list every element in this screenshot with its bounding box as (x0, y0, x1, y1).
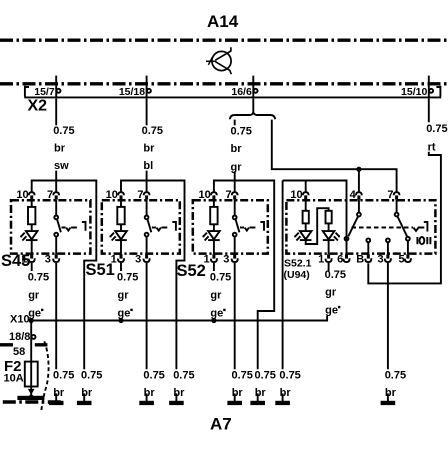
svg-text:0.75: 0.75 (210, 272, 231, 284)
svg-text:0.75: 0.75 (53, 370, 74, 382)
wire from 15/7 upper segment (55, 99, 57, 126)
arrowhead at fuse output (28, 389, 35, 395)
resistor 2 S52.1 (326, 211, 332, 224)
terminal 16/6 hook (254, 89, 258, 93)
ground S52 housing (257, 393, 259, 401)
svg-text:br: br (232, 387, 244, 399)
wire contact to pin 3 (234, 237, 236, 255)
switch 2 upper contact (395, 213, 399, 217)
svg-text:3: 3 (135, 253, 141, 265)
wire 16/6 left branch stub (234, 120, 236, 126)
junction dot at S52.1 pin 4 branch (356, 167, 361, 172)
switch lower contact (233, 233, 237, 237)
svg-text:58: 58 (13, 346, 25, 358)
wire resistor to LED (120, 224, 122, 231)
wire contact to pin 3 (146, 237, 148, 255)
S52.1 pin 4 (356, 192, 362, 195)
wire LED 2 to pin 1 (328, 241, 330, 254)
S52.1 pin B (367, 254, 370, 258)
mechanical linkage S45 (62, 228, 77, 231)
X2 rail left riser (25, 86, 29, 97)
wire contact to pin B (367, 242, 369, 254)
S45 pin 1 (30, 254, 33, 258)
S52.1 housing top wire and right edge to pin 6 (283, 181, 347, 255)
wire S52 pin 3 to ground (234, 263, 236, 369)
wire pin 7 to contact (55, 200, 57, 216)
wire 16/6 right branch to S52.1 pins 4 and 7 (272, 120, 397, 192)
switch 2 blade S52.1 (398, 216, 408, 236)
actuator S52 (260, 222, 264, 231)
switch 2 lower contact (406, 237, 410, 241)
wire 16/6 left branch to S52 pin 7 (234, 171, 236, 192)
fuse F2 (25, 362, 38, 387)
switch blade S45 (57, 219, 61, 232)
connector X2 boundary lower dash-dot line (0, 82, 448, 85)
wire resistor to LED (31, 224, 33, 231)
S52 pin 10 (211, 192, 217, 195)
svg-text:0.75: 0.75 (142, 125, 163, 137)
contact pin B (366, 238, 370, 242)
svg-text:br: br (385, 387, 397, 399)
switch blade S52 (236, 219, 240, 232)
svg-text:ge: ge (28, 307, 41, 319)
svg-text:10: 10 (16, 189, 28, 201)
svg-text:3: 3 (377, 253, 383, 265)
ground S51 pin3 (146, 393, 148, 401)
S52.1 pin 10 stub (305, 181, 307, 193)
wire S45 pin 3 to ground (55, 263, 57, 369)
svg-text:S45: S45 (1, 252, 30, 270)
LED S52 (208, 231, 220, 239)
svg-text:gr: gr (118, 289, 130, 301)
S52.1 pin 10 (303, 192, 309, 195)
boundary dash-dot bottom left (3, 400, 62, 403)
switch upper contact (233, 216, 237, 220)
mechanical linkage S52 (240, 228, 255, 231)
svg-text:16/6: 16/6 (231, 86, 252, 98)
svg-text:5: 5 (398, 253, 404, 265)
svg-text:X2: X2 (28, 98, 48, 115)
svg-text:br: br (143, 143, 155, 155)
actuator S52.1 (424, 222, 428, 232)
wire S52.1 pin 3 to ground (387, 263, 389, 369)
svg-text:ge: ge (325, 305, 338, 317)
wire from 15/10 upper segment (428, 99, 430, 123)
svg-text:0.75: 0.75 (53, 125, 74, 137)
svg-text:0.75: 0.75 (255, 370, 276, 382)
terminal 15/10 hook (429, 89, 433, 93)
svg-text:6: 6 (337, 253, 343, 265)
S52 pin 7 (232, 192, 238, 195)
wire contact to pin 5 (407, 241, 409, 255)
svg-text:18/8: 18/8 (9, 331, 30, 343)
svg-text:10A: 10A (4, 373, 24, 385)
junction dot S45 pin1 at X10 (29, 318, 34, 323)
wire fuse to ground bar (30, 387, 32, 396)
svg-text:0.75: 0.75 (81, 370, 102, 382)
svg-text:0.75: 0.75 (231, 125, 252, 137)
wire pin 7 to contact (146, 200, 148, 216)
connector rail X2 bus (24, 96, 441, 98)
wire S51 pin 1 to X10 (120, 263, 122, 271)
S52.1 pin 1 (327, 254, 330, 258)
svg-text:0.75: 0.75 (325, 269, 346, 281)
X2 rail right riser (436, 86, 440, 97)
svg-text:3: 3 (223, 253, 229, 265)
ground S52.1 pin3 (387, 393, 389, 401)
wire S52.1 pin 1 to X10 (328, 263, 330, 271)
switch S52 housing top wire and right edge to ground (214, 181, 274, 370)
dash-dot outline S52 (193, 200, 268, 253)
svg-text:A7: A7 (210, 415, 232, 434)
wire LED to pin 1 (31, 241, 33, 254)
S45 pin 10 (29, 192, 35, 195)
wire LED 1 to resistor 2 (snake link) (306, 208, 329, 244)
svg-text:0.75: 0.75 (426, 123, 447, 135)
wire S51 pin 3 to ground (146, 263, 148, 369)
svg-text:4: 4 (350, 189, 357, 201)
S52.1 pin 7 (394, 192, 400, 195)
svg-text:sw: sw (54, 160, 69, 172)
dash-dot outline S51 (102, 200, 180, 253)
svg-text:15/18: 15/18 (119, 86, 145, 98)
ground S52 pin3 (234, 393, 236, 401)
S51 pin 7 (144, 192, 150, 195)
S52.1 pin 5 (406, 254, 409, 258)
wire from 15/7 lower segment to S45 pin 7 (55, 171, 57, 192)
switch upper contact (145, 216, 149, 220)
wire X10 to terminal 18/8 (30, 322, 32, 362)
S45 pin 7 (53, 192, 59, 195)
wire pin 7 to contact (396, 200, 398, 213)
terminal 15/7 stub (55, 76, 57, 97)
svg-text:br: br (54, 143, 66, 155)
ground S45 pin3 (55, 393, 57, 401)
svg-text:S52.1: S52.1 (284, 257, 312, 269)
resistor 1 S52.1 (303, 211, 309, 224)
resistor (illumination) S45 (28, 207, 35, 224)
terminal 18/8 hook (32, 335, 36, 339)
wire resistor 2 to LED 2 (328, 223, 330, 231)
svg-text:X10: X10 (10, 313, 30, 325)
svg-text:gr: gr (28, 289, 40, 301)
actuator S45 (82, 222, 86, 231)
svg-text:A14: A14 (207, 12, 239, 31)
LED S51 (115, 231, 127, 239)
switch S52.1 housing left edge to ground (282, 181, 284, 370)
module A14 boundary upper dash-dot line (0, 39, 448, 42)
S45 pin 3 (55, 254, 58, 258)
svg-text:1: 1 (318, 253, 324, 265)
wire LED to pin 1 (213, 241, 215, 254)
LED 1 S52.1 (300, 231, 312, 239)
svg-text:ge: ge (118, 307, 131, 319)
svg-text:10: 10 (199, 189, 211, 201)
svg-text:15/10: 15/10 (401, 86, 427, 98)
terminal 15/18 stub (146, 76, 148, 97)
dash-dot outline S52.1 (286, 200, 435, 253)
mechanical linkage S52.1 (352, 227, 414, 229)
junction dot at ground bar (29, 395, 34, 400)
contact pin 3 (386, 238, 390, 242)
svg-text:S51: S51 (86, 261, 115, 279)
svg-text:7: 7 (137, 189, 143, 201)
terminal 15/10 stub (428, 76, 430, 97)
terminal 16/6 stub (252, 76, 254, 97)
wire LED to pin 1 (120, 241, 122, 254)
wire from 16/6 upper segment (252, 99, 254, 113)
ground S52.1 housing (282, 393, 284, 401)
S52.1 pin 3 (386, 254, 389, 258)
svg-text:br: br (231, 143, 243, 155)
S51 pin 3 (145, 254, 148, 258)
svg-text:7: 7 (225, 189, 231, 201)
resistor (illumination) S52 (210, 207, 217, 224)
svg-text:10: 10 (106, 189, 118, 201)
ground S51 housing (175, 393, 177, 401)
junction dot S52 pin1 at X10 (211, 318, 216, 323)
wire from 15/10 routed to S52.1 pin B (368, 152, 441, 284)
ground bar terminal 58 (17, 396, 44, 400)
wire pin 4 to contact (358, 200, 360, 213)
svg-text:br: br (144, 387, 156, 399)
X10 bus right end riser (326, 316, 328, 322)
wire pin 10 to resistor (31, 200, 33, 207)
wire through fuse (30, 362, 32, 387)
svg-text:0.75: 0.75 (279, 370, 300, 382)
switch S45 housing top wire and right edge to ground (32, 181, 97, 370)
ground S45 housing (83, 393, 85, 401)
svg-text:ge: ge (210, 307, 223, 319)
wire pin 10 to resistor (120, 200, 122, 207)
svg-text:(U94): (U94) (284, 269, 310, 281)
S52.1 pin 6 (345, 254, 348, 258)
switch 1 upper contact (357, 213, 361, 217)
wire from 15/18 upper segment (146, 99, 148, 126)
wire contact to pin 3 (387, 242, 389, 254)
instrument illumination symbol in A14 (206, 47, 231, 74)
wire contact to pin 3 (55, 237, 57, 255)
wire from 15/18 lower segment to S51 pin 7 (146, 171, 148, 192)
actuator S51 (172, 222, 176, 231)
switch lower contact (145, 233, 149, 237)
wire S45 pin 1 to X10 (31, 263, 33, 271)
wire pin 10 to resistor (213, 200, 215, 207)
S52 pin 3 (233, 254, 236, 258)
svg-text:0.75: 0.75 (28, 272, 49, 284)
boundary dash-dot at 18/8 (0, 343, 47, 346)
dash-dot outline S45 (11, 200, 90, 253)
svg-text:br: br (173, 387, 185, 399)
svg-text:7: 7 (47, 189, 53, 201)
junction dot S51 pin1 at X10 (118, 318, 123, 323)
switch blade S51 (147, 219, 151, 232)
wire pin 7 to contact (234, 200, 236, 216)
S51 pin 1 (120, 254, 123, 258)
mechanical linkage S51 (152, 228, 167, 231)
svg-text:gr: gr (325, 287, 337, 299)
switch 1 lower contact (on pin 6 line) (345, 237, 349, 241)
wire pin 10 to resistor (305, 200, 307, 211)
switch upper contact (54, 216, 58, 220)
svg-text:7: 7 (387, 189, 393, 201)
svg-text:gr: gr (210, 289, 222, 301)
svg-text:B: B (356, 253, 364, 265)
svg-text:br: br (81, 387, 93, 399)
terminal 15/7 hook (57, 89, 61, 93)
svg-text:3: 3 (45, 253, 51, 265)
terminal 15/18 hook (147, 89, 151, 93)
connector rail X10 bus (29, 320, 327, 322)
svg-text:bl: bl (143, 160, 153, 172)
wire resistor 1 to LED 1 (305, 223, 307, 231)
svg-text:0.75: 0.75 (117, 272, 138, 284)
wire S52 pin 1 to X10 (213, 263, 215, 271)
cable boundary dashed curve at F2 (41, 341, 48, 410)
svg-text:15/7: 15/7 (34, 86, 55, 98)
svg-text:S52: S52 (177, 262, 206, 280)
svg-text:0.75: 0.75 (232, 370, 253, 382)
resistor (illumination) S51 (117, 207, 124, 224)
svg-text:br: br (280, 387, 292, 399)
switch S51 housing top wire and right edge to ground (121, 181, 185, 370)
svg-text:gr: gr (231, 162, 243, 174)
switch position symbol I0II (417, 237, 430, 244)
svg-text:10: 10 (290, 189, 302, 201)
svg-text:br: br (255, 387, 267, 399)
svg-text:0.75: 0.75 (173, 370, 194, 382)
LED 2 S52.1 (323, 231, 335, 239)
svg-text:br: br (53, 387, 65, 399)
switch 1 blade S52.1 (348, 216, 358, 236)
S51 pin 10 (118, 192, 124, 195)
S52 pin 1 (212, 254, 215, 258)
svg-text:0.75: 0.75 (143, 370, 164, 382)
wire branch down to S52.1 pin 4 (358, 169, 360, 192)
cable brace at 16/6 split (230, 113, 275, 120)
svg-text:0.75: 0.75 (385, 370, 406, 382)
LED S45 (26, 231, 38, 239)
switch lower contact (54, 233, 58, 237)
wire resistor to LED (213, 224, 215, 231)
